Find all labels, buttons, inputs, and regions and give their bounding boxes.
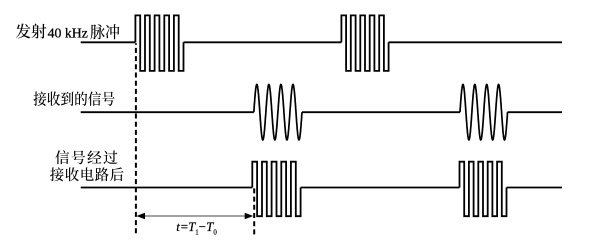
svg-text:40 kHz: 40 kHz xyxy=(48,26,88,41)
